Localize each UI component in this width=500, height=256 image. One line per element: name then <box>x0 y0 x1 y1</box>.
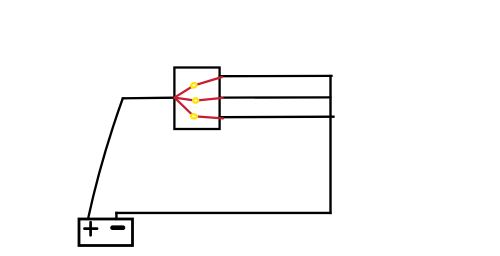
wire horizontal into switch common <box>123 97 175 100</box>
wire battery - terminal stub <box>115 213 117 219</box>
battery BT1 box <box>79 219 133 246</box>
red wire: common to bottom contact <box>175 98 224 119</box>
red wire: common to top contact <box>175 77 223 98</box>
wire bottom horizontal return <box>116 212 330 214</box>
battery - terminal mark <box>113 225 124 230</box>
wire middle throw line <box>220 96 331 98</box>
wire from battery + terminal up-left diagonal <box>88 98 123 219</box>
battery + terminal mark <box>85 222 98 235</box>
switch S1 box <box>174 68 219 130</box>
wire top throw line <box>220 75 332 78</box>
red wire: common to middle contact <box>175 98 223 101</box>
contact dot 2 (middle) <box>193 98 198 102</box>
wire bottom throw line <box>220 116 334 119</box>
wire right vertical <box>329 76 331 213</box>
contact dot 1 (top) <box>191 82 198 88</box>
contact dot 3 (bottom) <box>191 114 198 119</box>
